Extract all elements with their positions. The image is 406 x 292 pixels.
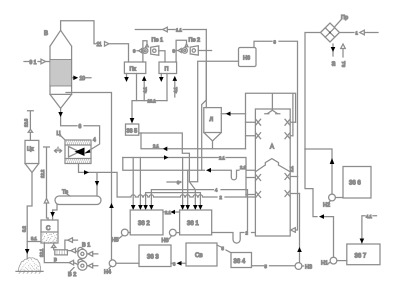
svg-text:Н6: Н6 [243,56,250,62]
svg-text:р: р [54,257,57,263]
wire 4 line (y=189.6) [151,188,247,233]
wire 10.1 to box 365 [130,99,167,124]
svg-text:В 1: В 1 [82,243,90,249]
A top header [246,93,296,149]
wire N6 top to 3 line right [254,40,298,177]
svg-text:Пк: Пк [130,67,137,73]
wire 365 right to 361 drop [139,133,190,182]
box 363 [139,245,171,267]
wire Pr right with open arrow [340,30,379,35]
svg-text:3: 3 [173,261,176,266]
svg-text:Н1: Н1 [321,261,328,267]
svg-text:Пе 1: Пе 1 [152,38,164,44]
box 367 [347,244,380,265]
svg-text:Цк: Цк [27,147,34,153]
svg-text:11: 11 [97,42,102,48]
vessel L [204,108,222,149]
box 366 [343,167,371,199]
bin C with sludge [41,220,58,243]
svg-text:8.2: 8.2 [22,226,27,232]
svg-text:4.1: 4.1 [143,87,148,93]
wire N6 left to twin verticals [189,30,238,182]
wire 3 stub [167,180,181,185]
drops into 361 with arrows [180,158,202,211]
A right X nozzles upper [285,119,296,139]
svg-text:5: 5 [265,264,268,269]
svg-text:Пе 2: Пе 2 [189,38,201,44]
svg-text:9.1: 9.1 [341,61,346,67]
svg-text:9: 9 [173,49,176,54]
wire C bottom left to pump V2 line, label 12.1 [39,243,69,263]
svg-text:9 1: 9 1 [30,60,37,66]
svg-text:С: С [46,226,51,232]
stub 4.1 into 367 [360,214,377,244]
svg-text:Н6: Н6 [162,238,169,244]
drain arrows under Pk [124,74,147,101]
small vibrator marks left of mill [55,147,62,152]
vessel Tsk [25,140,39,172]
pump circle N6b [162,229,180,244]
svg-text:10.1: 10.1 [148,99,157,104]
svg-text:Н4: Н4 [104,270,111,276]
A right X nozzles lower with stubs [285,166,300,197]
svg-text:2.1: 2.1 [289,166,294,172]
svg-text:4: 4 [93,138,96,144]
wire B top to 11 line to Pk [61,21,129,62]
boiler Pk [124,62,145,74]
wire 2.1 left-arrow line (y=148.8) [141,133,246,151]
wire right-arrow line (y=157.5) [123,155,246,196]
wire into L from A header [221,111,245,116]
drops into 362 with arrows [131,158,154,211]
label 11 with open arrow [97,42,110,49]
wire 12.2 with up arrow into C [40,147,49,220]
svg-text:Ц: Ц [57,131,61,137]
svg-text:10: 10 [80,76,86,82]
svg-text:9: 9 [133,49,136,54]
furnace P [159,62,177,74]
open arrow into A right wall [290,177,297,233]
valve stub above feeder [65,238,78,250]
wire Tsk apex down to heap with 8.2, 8.1 branch [22,173,42,261]
wire main right vertical branch to 366 [305,149,334,194]
wire Tv left down into C [50,205,57,221]
pump circle N1 [321,257,347,266]
svg-text:12.3: 12.3 [24,118,29,127]
svg-text:Л: Л [210,117,214,123]
svg-text:36 6: 36 6 [349,181,361,187]
box 365 [126,124,139,135]
branch 12.3 with valve to Tsk [24,111,34,141]
svg-text:5: 5 [222,246,225,251]
svg-text:36 2: 36 2 [138,221,150,227]
pump circle N3 [295,263,312,271]
wire Pr left down right-main vertical [305,33,321,150]
wire 2.1 arrow between boxes [163,210,180,215]
svg-text:2: 2 [220,195,223,200]
svg-text:36 1: 36 1 [187,221,199,227]
svg-text:Пр: Пр [341,15,348,21]
A left X nozzles lower with feed [246,175,261,198]
small valve and feeder r below C [52,243,68,263]
wire B cone right long vertical to H4 [66,93,112,260]
box 364 [231,253,252,268]
svg-text:2.1: 2.1 [240,165,246,170]
svg-text:1: 1 [356,31,359,36]
svg-text:4.1: 4.1 [366,214,372,219]
A left X nozzles upper [246,119,261,139]
svg-text:2.1: 2.1 [219,156,225,161]
svg-text:1.1: 1.1 [176,28,182,33]
svg-text:36 3: 36 3 [147,255,159,261]
svg-text:А: А [270,145,274,151]
wire 361 right U-seal line 2 to A [212,231,256,244]
svg-text:В: В [44,31,48,37]
burner Pe2 [173,38,212,63]
screw cooler Tv [55,190,101,205]
svg-text:2.1: 2.1 [153,144,159,149]
absorber A body [255,109,290,236]
svg-text:6: 6 [79,124,82,130]
pump circle N4 [104,259,139,276]
svg-text:4.1: 4.1 [173,87,178,93]
box 361 [180,210,212,235]
pump circle N2 [323,194,343,208]
diagonal 5 from Sv to 364 [217,245,231,253]
heap of material [16,258,43,274]
vessel B (electrofilter) [44,30,72,108]
svg-text:3: 3 [177,180,180,185]
pump V2 [68,259,98,278]
A top chevron [265,110,280,114]
wire 363 to Sv with arrow 3 [171,261,186,266]
svg-text:2.1: 2.1 [165,210,171,215]
svg-text:36 5: 36 5 [127,129,138,135]
svg-text:3: 3 [274,40,277,45]
svg-text:12.1: 12.1 [39,248,44,257]
svg-text:Св: Св [195,253,203,259]
stubs 10 and 9.1 under Pr [331,44,346,67]
svg-text:Н5: Н5 [112,238,119,244]
fan Pr (diamond) [321,15,349,42]
wire 2.1 A-to-mill line (y=170.5) with U dip [123,158,256,180]
svg-text:10: 10 [331,61,336,66]
svg-text:8.1: 8.1 [31,236,37,241]
drain arrows under P [159,74,178,101]
wire 364 right to N3 with label 5 [252,264,295,269]
box Sv [186,243,217,266]
top line 1.1 with open arrow [135,27,206,33]
wire aux line (y=192.6) [146,193,201,206]
pump circle N5 [112,229,131,243]
svg-text:36 7: 36 7 [355,254,367,260]
wire mill bottom to Tv and 2.1 line [79,164,118,198]
valve from feeder to pump V1 [67,248,78,253]
box 362 [130,210,163,235]
wire 2 line (y=197) with hops [117,195,255,200]
burner Pe1 [133,38,165,63]
mill Ts [57,131,92,164]
wire right vertical down to N1 line [305,149,334,257]
svg-text:В 2: В 2 [68,272,76,278]
svg-text:П: П [165,67,169,73]
svg-text:4: 4 [215,188,218,193]
outlet 10 from B [72,76,91,83]
pump V1 [78,243,98,259]
svg-text:36 4: 36 4 [234,259,246,265]
A middle chevron (mist eliminator) [255,159,290,172]
pump box N6 [239,48,257,67]
wire N3 riser with up arrow [297,194,302,263]
wire B apex down, label 6, into mill Ts [58,108,99,153]
svg-text:12.2: 12.2 [40,169,45,178]
svg-text:Н3: Н3 [305,264,312,270]
inlet 9 1 arrow into B [24,59,50,66]
